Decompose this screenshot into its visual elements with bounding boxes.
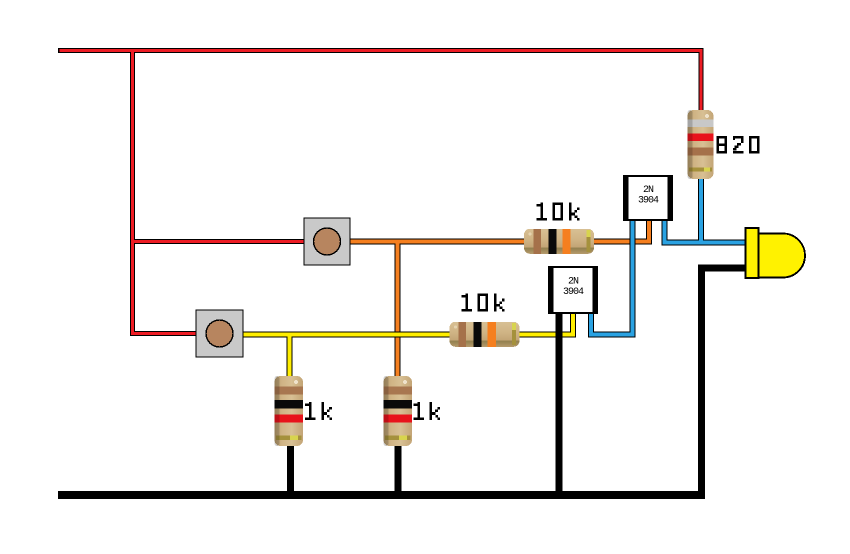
wire: orange net (button1 to Q1 base, branch down to R3 1k) bbox=[349, 220, 649, 380]
LED D1 (yellow) bbox=[746, 228, 806, 278]
svg-text:2N: 2N bbox=[643, 185, 654, 196]
label 10k (R2) bbox=[536, 203, 579, 221]
label 10k (R5) bbox=[461, 294, 504, 312]
transistor Q2 2N3904 (bottom) bbox=[548, 266, 598, 314]
resistor R1 820 (vertical, top right) bbox=[688, 110, 714, 179]
label 1k (R4) bbox=[305, 402, 332, 420]
resistor R4 1k (vertical, left) bbox=[275, 376, 304, 446]
svg-text:3904: 3904 bbox=[638, 196, 659, 207]
resistor R2 10k (horizontal, row 1) bbox=[524, 229, 594, 254]
pushbutton S2 (bottom) bbox=[196, 310, 243, 357]
wire: red positive net (top bus, drop to R820, left vertical, branches to buttons) bbox=[58, 48, 701, 334]
transistor Q1 2N3904 (top) bbox=[623, 175, 673, 221]
svg-text:3904: 3904 bbox=[563, 287, 584, 298]
wire: yellow net (button2 to Q2 base, branch down to R4 1k) bbox=[241, 313, 573, 380]
resistor R3 1k (vertical, right) bbox=[384, 376, 413, 446]
label 1k (R3) bbox=[413, 402, 440, 420]
wire: black ground net (bottom bus and drops) bbox=[58, 268, 747, 495]
label 820 bbox=[717, 136, 760, 154]
resistor R5 10k (horizontal, row 2) bbox=[450, 322, 520, 347]
pushbutton S1 (top) bbox=[304, 218, 350, 265]
svg-text:2N: 2N bbox=[568, 277, 579, 288]
wire: blue net (R820 to LED anode, Q1 emitter/collector links) bbox=[591, 176, 747, 335]
